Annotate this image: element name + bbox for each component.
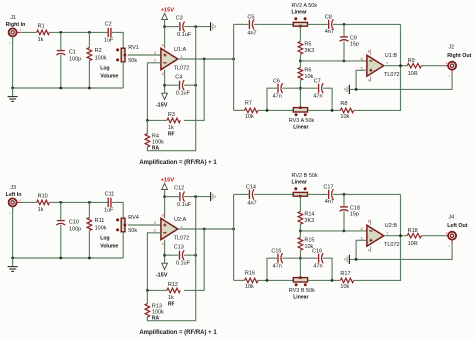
wire xyxy=(112,32,123,48)
junction xyxy=(194,254,197,257)
junction xyxy=(88,31,91,34)
svg-text:4: 4 xyxy=(368,249,370,253)
svg-text:TL072: TL072 xyxy=(384,72,400,78)
svg-text:6: 6 xyxy=(361,227,363,231)
wire xyxy=(234,193,249,195)
svg-text:+15V: +15V xyxy=(161,8,175,14)
capacitor C4 0.1uF xyxy=(179,81,181,90)
resistor R8 10k xyxy=(340,108,353,113)
potentiometer RV1 50k Log Volume xyxy=(121,48,125,62)
junction xyxy=(59,201,62,204)
wire xyxy=(233,24,235,110)
svg-text:10k: 10k xyxy=(340,114,349,120)
wire xyxy=(122,62,124,88)
svg-text:R2: R2 xyxy=(95,48,102,54)
wire xyxy=(88,61,90,88)
svg-text:Amplification = (RF/RA) + 1: Amplification = (RF/RA) + 1 xyxy=(139,160,217,166)
potentiometer RV2 A 50k Linear xyxy=(293,22,307,26)
svg-text:15p: 15p xyxy=(350,42,359,48)
wire xyxy=(300,230,367,232)
wire xyxy=(300,60,367,62)
ground xyxy=(210,22,212,31)
svg-text:1: 1 xyxy=(181,225,183,229)
svg-text:0.1uF: 0.1uF xyxy=(176,91,191,97)
svg-text:C10: C10 xyxy=(69,219,79,225)
svg-text:10k: 10k xyxy=(245,284,254,290)
pin 4 stub xyxy=(370,76,372,82)
wire xyxy=(147,197,195,321)
junction xyxy=(88,201,91,204)
svg-text:RV2 B 50k: RV2 B 50k xyxy=(292,173,318,179)
wire xyxy=(384,65,408,67)
resistor R1 1k xyxy=(37,30,50,35)
wire xyxy=(12,206,14,258)
svg-text:100p: 100p xyxy=(69,226,81,232)
svg-text:4: 4 xyxy=(162,72,164,76)
svg-text:Volume: Volume xyxy=(100,243,118,249)
svg-text:TL072: TL072 xyxy=(174,65,190,71)
svg-text:50k: 50k xyxy=(128,228,137,234)
svg-text:C4: C4 xyxy=(175,75,182,81)
wire xyxy=(147,27,195,151)
wire xyxy=(299,54,301,67)
junction xyxy=(11,87,14,90)
svg-text:RV1: RV1 xyxy=(128,45,139,51)
svg-text:TL072: TL072 xyxy=(384,242,400,248)
wire xyxy=(356,240,367,259)
wire xyxy=(234,279,245,281)
svg-text:Linear: Linear xyxy=(292,180,307,186)
wire xyxy=(60,202,62,220)
wire xyxy=(146,290,148,303)
wire xyxy=(178,228,234,230)
resistor R18 10R xyxy=(407,233,421,238)
potentiometer RV3 B 50k Linear xyxy=(293,278,307,282)
wire xyxy=(234,109,245,111)
junction xyxy=(59,87,62,90)
svg-text:C8: C8 xyxy=(325,15,332,21)
op-amp U1:B TL072 xyxy=(367,55,384,76)
svg-text:C2: C2 xyxy=(105,21,112,27)
junction xyxy=(163,254,166,257)
junction xyxy=(194,25,197,28)
svg-text:Left In: Left In xyxy=(6,192,22,198)
svg-text:RF: RF xyxy=(168,301,175,307)
junction xyxy=(266,279,269,282)
wire xyxy=(60,55,62,88)
svg-text:R9: R9 xyxy=(408,58,415,64)
wire xyxy=(112,202,123,218)
wire xyxy=(128,54,161,56)
svg-text:47n: 47n xyxy=(313,264,322,270)
wire xyxy=(88,32,90,47)
wire xyxy=(350,74,453,90)
capacitor C16 47n xyxy=(318,254,320,263)
svg-text:R17: R17 xyxy=(340,271,350,277)
svg-text:R1: R1 xyxy=(38,24,45,30)
svg-text:10R: 10R xyxy=(408,241,418,247)
capacitor C6 47n xyxy=(277,84,279,93)
wire xyxy=(184,229,204,290)
wire xyxy=(299,250,301,278)
wire xyxy=(21,31,37,33)
connector J4 (Left Out) xyxy=(448,232,456,240)
wire xyxy=(146,120,148,133)
svg-text:C17: C17 xyxy=(323,185,333,191)
capacitor C12 0.1uF xyxy=(179,192,181,201)
connector J2 (Right Out) xyxy=(448,62,456,70)
svg-text:1uF: 1uF xyxy=(104,207,114,213)
wire xyxy=(164,20,166,49)
wire xyxy=(254,193,293,195)
svg-text:J1: J1 xyxy=(10,15,16,21)
junction xyxy=(203,228,206,231)
svg-text:RV2 A 50k: RV2 A 50k xyxy=(292,3,318,9)
wire xyxy=(258,109,293,111)
svg-text:1k: 1k xyxy=(168,125,174,131)
svg-text:RA: RA xyxy=(152,145,160,151)
svg-text:100p: 100p xyxy=(69,56,81,62)
op-amp U2:A TL072 xyxy=(161,218,178,239)
wire xyxy=(323,88,332,110)
junction xyxy=(299,230,302,233)
wire xyxy=(267,258,277,280)
capacitor C17 4n7 xyxy=(328,190,330,199)
wire xyxy=(184,26,210,28)
svg-text:R13: R13 xyxy=(152,303,162,309)
wire xyxy=(323,258,332,280)
svg-text:R6: R6 xyxy=(304,68,311,74)
junction xyxy=(59,31,62,34)
junction xyxy=(163,25,166,28)
svg-text:Right Out: Right Out xyxy=(447,53,471,59)
resistor R2 100k xyxy=(87,48,92,61)
svg-text:8: 8 xyxy=(162,214,164,218)
svg-text:10R: 10R xyxy=(408,71,418,77)
junction xyxy=(355,88,358,91)
wire xyxy=(165,84,179,86)
svg-text:10k: 10k xyxy=(304,74,313,80)
wire xyxy=(333,193,400,195)
wire xyxy=(165,26,179,28)
junction xyxy=(299,87,302,90)
resistor R4 100k RA xyxy=(145,134,150,147)
svg-text:-15V: -15V xyxy=(156,273,168,279)
svg-text:R18: R18 xyxy=(408,228,418,234)
connector J1 (Right In) xyxy=(9,28,17,36)
svg-text:RA: RA xyxy=(152,315,160,321)
svg-text:100k: 100k xyxy=(152,309,164,315)
junction xyxy=(11,257,14,260)
junction xyxy=(194,84,197,87)
wire xyxy=(421,65,446,67)
ground xyxy=(210,192,212,201)
svg-text:J2: J2 xyxy=(448,45,454,51)
svg-text:3K3: 3K3 xyxy=(304,48,314,54)
wire xyxy=(233,194,235,280)
svg-text:U2:A: U2:A xyxy=(174,217,187,223)
svg-text:Linear: Linear xyxy=(292,10,307,16)
svg-text:R12: R12 xyxy=(168,282,178,288)
wire xyxy=(178,58,234,60)
svg-text:RV4: RV4 xyxy=(128,215,139,221)
capacitor C1 100p xyxy=(57,50,65,52)
capacitor C10 100p xyxy=(57,220,65,222)
svg-text:15p: 15p xyxy=(350,212,359,218)
wire xyxy=(421,235,446,237)
svg-text:C3: C3 xyxy=(176,16,183,22)
resistor R7 10k xyxy=(245,108,258,113)
capacitor C2 1uF xyxy=(107,28,109,37)
junction xyxy=(88,257,91,260)
svg-text:47n: 47n xyxy=(313,94,322,100)
svg-text:R4: R4 xyxy=(152,133,159,139)
capacitor C9 15p xyxy=(340,36,348,38)
svg-text:Right In: Right In xyxy=(6,22,26,28)
wire xyxy=(184,196,210,198)
svg-text:C14: C14 xyxy=(246,185,256,191)
resistor R11 100k xyxy=(87,218,92,231)
pin 8 stub xyxy=(370,50,372,56)
wire xyxy=(333,23,400,25)
ground xyxy=(12,88,14,96)
wire xyxy=(299,80,301,108)
power +15V xyxy=(162,183,168,189)
power +15V xyxy=(162,13,168,19)
wire xyxy=(299,196,301,211)
junction xyxy=(343,23,346,26)
wire xyxy=(254,23,293,25)
svg-text:6: 6 xyxy=(361,57,363,61)
svg-text:4: 4 xyxy=(368,79,370,83)
capacitor C14 4n7 xyxy=(248,190,250,199)
wire xyxy=(147,289,167,291)
svg-text:U1:A: U1:A xyxy=(174,47,187,53)
wire xyxy=(147,63,161,121)
capacitor C8 4n7 xyxy=(328,20,330,29)
junction xyxy=(266,109,269,112)
svg-text:Linear: Linear xyxy=(293,295,308,301)
svg-text:4n7: 4n7 xyxy=(247,200,256,206)
resistor R14 3K3 xyxy=(298,211,303,224)
svg-text:2: 2 xyxy=(154,59,156,63)
wire xyxy=(12,36,14,88)
wire xyxy=(343,41,345,61)
capacitor C5 4n7 xyxy=(248,20,250,29)
svg-text:Amplification = (RF/RA) + 1: Amplification = (RF/RA) + 1 xyxy=(139,330,217,336)
junction xyxy=(343,230,346,233)
resistor R9 10R xyxy=(407,63,421,68)
svg-text:U2:B: U2:B xyxy=(385,223,398,229)
wire xyxy=(88,231,90,258)
capacitor C7 47n xyxy=(318,84,320,93)
svg-text:47n: 47n xyxy=(273,94,282,100)
svg-text:C16: C16 xyxy=(312,249,322,255)
junction xyxy=(203,58,206,61)
wire xyxy=(308,193,328,195)
resistor R3 1k RF xyxy=(167,118,180,123)
svg-text:4n7: 4n7 xyxy=(325,29,334,35)
wire xyxy=(343,211,345,231)
svg-text:Log: Log xyxy=(100,66,109,72)
resistor R15 10k xyxy=(298,237,303,250)
svg-text:4n7: 4n7 xyxy=(325,199,334,205)
wire xyxy=(88,202,90,217)
svg-text:1k: 1k xyxy=(38,207,44,213)
potentiometer RV2 B 50k Linear xyxy=(293,192,307,196)
wire xyxy=(49,31,107,33)
svg-text:R10: R10 xyxy=(38,194,48,200)
svg-text:Volume: Volume xyxy=(100,73,118,79)
junction xyxy=(146,289,149,292)
wire xyxy=(21,201,37,203)
wire xyxy=(384,235,408,237)
svg-text:J3: J3 xyxy=(10,185,16,191)
svg-text:U1:B: U1:B xyxy=(385,53,398,59)
svg-text:C9: C9 xyxy=(350,35,357,41)
junction xyxy=(194,195,197,198)
svg-text:3: 3 xyxy=(154,51,156,55)
power -15V xyxy=(162,263,168,269)
svg-text:+15V: +15V xyxy=(161,178,175,184)
resistor R16 10k xyxy=(245,278,258,283)
wire xyxy=(164,240,166,264)
junction xyxy=(163,84,166,87)
svg-text:3K3: 3K3 xyxy=(304,218,314,224)
wire xyxy=(343,194,345,206)
wire xyxy=(49,201,107,203)
wire xyxy=(282,87,317,89)
svg-text:R11: R11 xyxy=(95,218,105,224)
junction xyxy=(331,109,334,112)
svg-text:C1: C1 xyxy=(69,49,76,55)
connector J3 (Left In) xyxy=(9,198,17,206)
wire xyxy=(147,119,167,121)
resistor R13 100k RA xyxy=(145,304,150,317)
svg-text:Log: Log xyxy=(100,236,109,242)
power -15V xyxy=(162,93,168,99)
svg-text:C15: C15 xyxy=(271,249,281,255)
svg-text:10k: 10k xyxy=(245,114,254,120)
svg-text:3: 3 xyxy=(154,221,156,225)
pin 4 stub xyxy=(370,246,372,252)
wire xyxy=(60,32,62,50)
svg-text:0.1uF: 0.1uF xyxy=(176,261,191,267)
capacitor C3 0.1uF xyxy=(179,22,181,31)
wire xyxy=(350,244,453,260)
capacitor C13 0.1uF xyxy=(179,251,181,260)
svg-text:1k: 1k xyxy=(168,295,174,301)
wire xyxy=(299,26,301,41)
capacitor C15 47n xyxy=(277,254,279,263)
svg-text:C5: C5 xyxy=(247,15,254,21)
svg-text:R7: R7 xyxy=(245,101,252,107)
wire xyxy=(282,257,317,259)
wire xyxy=(164,70,166,94)
wire xyxy=(165,196,179,198)
junction xyxy=(355,258,358,261)
ground xyxy=(348,85,350,94)
wire xyxy=(258,279,293,281)
svg-text:-15V: -15V xyxy=(156,103,168,109)
capacitor C11 1uF xyxy=(107,198,109,207)
junction xyxy=(343,193,346,196)
svg-text:1: 1 xyxy=(181,55,183,59)
svg-text:R3: R3 xyxy=(168,112,175,118)
svg-text:2: 2 xyxy=(154,229,156,233)
svg-text:C11: C11 xyxy=(105,191,115,197)
wire xyxy=(184,254,196,256)
svg-text:C7: C7 xyxy=(314,79,321,85)
junction xyxy=(399,234,402,237)
svg-text:8: 8 xyxy=(162,44,164,48)
node out-A xyxy=(232,58,235,61)
svg-text:7: 7 xyxy=(386,232,388,236)
wire xyxy=(128,224,161,226)
resistor R17 10k xyxy=(340,278,353,283)
ground xyxy=(12,258,14,266)
svg-text:1uF: 1uF xyxy=(104,37,114,43)
wire xyxy=(184,84,196,86)
wire xyxy=(122,232,124,258)
svg-text:4: 4 xyxy=(162,242,164,246)
wire xyxy=(234,23,249,25)
svg-text:TL072: TL072 xyxy=(174,235,190,241)
junction xyxy=(88,87,91,90)
wire xyxy=(308,23,328,25)
junction xyxy=(163,195,166,198)
potentiometer RV3 A 50k Linear xyxy=(293,108,307,112)
resistor R6 10k xyxy=(298,67,303,80)
svg-text:RV3 B 50k: RV3 B 50k xyxy=(289,288,315,294)
svg-text:50k: 50k xyxy=(128,58,137,64)
wire xyxy=(308,109,341,111)
svg-text:Linear: Linear xyxy=(293,125,308,131)
svg-text:C6: C6 xyxy=(273,79,280,85)
wire xyxy=(343,24,345,36)
wire xyxy=(60,225,62,258)
svg-text:R8: R8 xyxy=(340,101,347,107)
junction xyxy=(343,60,346,63)
ground xyxy=(348,255,350,264)
junction xyxy=(331,279,334,282)
wire xyxy=(184,59,204,120)
wire xyxy=(165,254,179,256)
svg-text:R15: R15 xyxy=(304,238,314,244)
svg-text:4n7: 4n7 xyxy=(247,30,256,36)
svg-text:100k: 100k xyxy=(152,139,164,145)
capacitor C18 15p xyxy=(340,206,348,208)
resistor R10 1k xyxy=(37,200,50,205)
svg-text:R14: R14 xyxy=(304,211,314,217)
svg-text:C18: C18 xyxy=(350,205,360,211)
svg-text:10k: 10k xyxy=(340,284,349,290)
svg-text:R5: R5 xyxy=(304,41,311,47)
wire xyxy=(354,24,401,110)
wire xyxy=(267,88,277,110)
svg-text:Left Out: Left Out xyxy=(447,223,468,229)
svg-text:8: 8 xyxy=(368,220,370,224)
wire xyxy=(299,224,301,237)
wire xyxy=(164,190,166,219)
wire xyxy=(13,87,124,89)
svg-text:8: 8 xyxy=(368,50,370,54)
svg-text:RF: RF xyxy=(168,131,175,137)
wire xyxy=(147,233,161,291)
wire xyxy=(354,194,401,280)
potentiometer RV4 50k Log Volume xyxy=(121,218,125,232)
op-amp U2:B TL072 xyxy=(367,225,384,246)
